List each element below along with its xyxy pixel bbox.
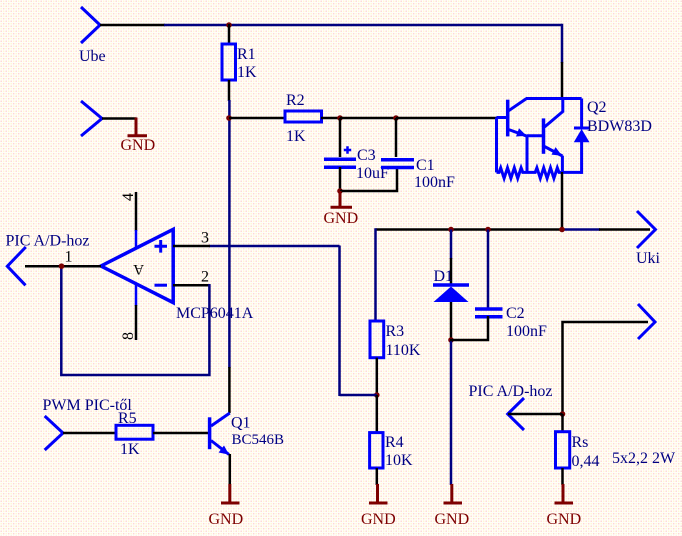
svg-text:GND: GND xyxy=(324,210,359,227)
svg-text:8: 8 xyxy=(120,332,137,340)
wire D1 upper lead black xyxy=(450,258,453,286)
svg-text:GND: GND xyxy=(121,137,156,154)
wire R4 upper lead xyxy=(376,395,379,433)
op-amp pin 3 lead xyxy=(173,245,210,248)
wire R1 upper lead xyxy=(228,24,231,45)
wire Rs upper lead xyxy=(561,414,564,432)
node junction D1 top xyxy=(448,227,454,233)
node junction Q2 emitter / rail xyxy=(559,227,565,233)
svg-text:C3: C3 xyxy=(357,147,376,164)
svg-text:D1: D1 xyxy=(434,268,454,285)
op-amp pin 4 lead xyxy=(135,192,138,231)
wire output rail right part xyxy=(562,228,600,231)
resistor R2 xyxy=(285,111,322,122)
resistor R3 xyxy=(370,321,384,358)
svg-text:1K: 1K xyxy=(286,128,306,145)
node junction at R1 top xyxy=(226,22,232,28)
svg-text:PIC A/D-hoz: PIC A/D-hoz xyxy=(6,233,90,250)
node junction C1 top xyxy=(393,115,399,121)
Q2 right side upper xyxy=(580,99,583,129)
op-amp plus input mark xyxy=(155,240,168,253)
svg-text:GND: GND xyxy=(361,511,396,528)
transistor Q1 base bar xyxy=(208,417,212,449)
wire R5 to Q1 base xyxy=(153,432,208,435)
Q2 inner transistor 2 base bar xyxy=(542,118,546,153)
wire R2 left lead xyxy=(229,117,286,120)
wire R4 lower lead xyxy=(376,468,379,485)
op-amp pin 8 lead blue part xyxy=(135,283,138,306)
svg-text:5x2,2 2W: 5x2,2 2W xyxy=(612,450,676,467)
resistor Rs xyxy=(556,432,570,468)
wire R2 right lead to C3 node xyxy=(321,117,341,120)
svg-text:BDW83D: BDW83D xyxy=(587,118,652,135)
port arrow output (top right lower) xyxy=(638,304,655,339)
node junction C2 top xyxy=(485,227,491,233)
Q2 T1 collector diagonal xyxy=(509,99,527,111)
svg-text:R2: R2 xyxy=(286,92,305,109)
svg-text:110K: 110K xyxy=(386,342,421,359)
wire Rs lower lead xyxy=(561,468,564,485)
wire output rail to Uki arrow xyxy=(599,228,650,231)
resistor R4 xyxy=(370,433,383,468)
node junction Rs top xyxy=(560,411,566,417)
wire output rail left part xyxy=(376,228,563,231)
wire feedback loop pin2 to pin1 xyxy=(61,265,209,375)
svg-text:1: 1 xyxy=(65,249,73,266)
port arrow to GND (below Ube) xyxy=(81,101,102,136)
svg-text:GND: GND xyxy=(547,511,582,528)
Q2 T1 emitter to T2 base link xyxy=(527,136,544,173)
Q2 left base stub and left side xyxy=(497,118,508,173)
capacitor C3 xyxy=(324,159,356,167)
wire D1 lower lead xyxy=(450,302,453,341)
svg-text:A: A xyxy=(133,261,144,277)
Q2 internal diode bar xyxy=(574,127,589,130)
Q2 top collector rail xyxy=(526,97,582,100)
capacitor C2 xyxy=(475,309,503,317)
wire Q2 collector lead black xyxy=(561,62,564,99)
wire Q1 emitter down xyxy=(229,454,232,485)
node junction C3 top xyxy=(337,115,343,121)
diode D1 triangle xyxy=(434,287,469,303)
wire rail corner down to R3 xyxy=(374,228,377,322)
wire Q2 emitter down to output rail xyxy=(561,172,564,231)
ground symbol below Q1 xyxy=(221,484,240,503)
wire D1 upper lead navy xyxy=(450,230,453,260)
wire arrow to GND xyxy=(102,117,137,120)
wire R3 lower lead xyxy=(376,358,379,396)
svg-text:2: 2 xyxy=(201,269,209,286)
svg-text:Rs: Rs xyxy=(572,434,589,451)
port arrow PWM xyxy=(45,416,63,450)
op-amp minus input mark xyxy=(155,284,168,287)
Q2 T2 emitter arrowhead xyxy=(552,147,563,156)
op-amp pin 2 lead xyxy=(173,284,211,287)
svg-text:BC546B: BC546B xyxy=(232,432,285,448)
svg-text:PIC A/D-hoz: PIC A/D-hoz xyxy=(469,383,553,400)
Q2 inner transistor 1 base bar xyxy=(506,100,510,137)
wire C2 upper lead xyxy=(487,230,490,311)
wire Ube rail navy segment xyxy=(164,24,562,27)
Q2 T2 collector diagonal xyxy=(545,99,563,127)
port arrow Uki xyxy=(637,211,655,248)
ground symbol below R4 xyxy=(369,484,388,503)
port arrow PIC A/D-hoz (left) xyxy=(7,247,26,285)
Q2 internal diode triangle xyxy=(574,129,590,142)
svg-text:R5: R5 xyxy=(118,410,137,427)
wire C1 upper lead xyxy=(395,118,398,157)
wire C2 lower lead to D1 node xyxy=(450,316,488,340)
C3 plus sign xyxy=(344,146,351,154)
ground symbol below Rs xyxy=(555,484,574,503)
wire C1 node to Q2 base xyxy=(396,117,497,120)
node junction feedback/pin1 xyxy=(59,263,65,269)
svg-text:4: 4 xyxy=(120,193,137,201)
node junction D1/C2 bottom xyxy=(448,337,454,343)
ground symbol near Ube xyxy=(128,118,148,136)
svg-text:0,44: 0,44 xyxy=(572,453,600,470)
svg-text:Uki: Uki xyxy=(636,250,661,267)
svg-text:100nF: 100nF xyxy=(506,323,547,340)
ground symbol below D1 xyxy=(444,484,463,503)
capacitor C1 xyxy=(381,160,414,168)
wire Q1 collector lead xyxy=(228,367,231,413)
svg-text:MCP6041A: MCP6041A xyxy=(176,305,254,322)
wire C3 node to C1 node xyxy=(340,117,396,120)
svg-text:1K: 1K xyxy=(237,64,257,81)
Q2 T2 emitter diagonal xyxy=(545,147,563,173)
svg-text:Q1: Q1 xyxy=(231,415,251,432)
svg-text:R3: R3 xyxy=(386,323,405,340)
resistor R1 xyxy=(222,44,236,80)
Q2 bottom emitter rail with resistor zigzags xyxy=(497,168,582,179)
resistor R5 xyxy=(116,425,153,439)
svg-text:GND: GND xyxy=(435,511,470,528)
node junction R1/R2 xyxy=(226,115,232,121)
Q2 T1 emitter diagonal xyxy=(509,130,528,137)
diode D1 cathode bar xyxy=(433,283,469,287)
port arrow Ube xyxy=(81,7,100,43)
svg-text:C1: C1 xyxy=(416,157,435,174)
svg-text:C2: C2 xyxy=(506,305,525,322)
svg-text:GND: GND xyxy=(209,511,244,528)
op-amp U1 triangle xyxy=(101,229,173,302)
node junction R3/R4 divider xyxy=(374,392,380,398)
node junction C3 bottom / GND xyxy=(337,188,343,194)
svg-text:3: 3 xyxy=(201,230,209,247)
wire C3 bottom to C1 bottom xyxy=(340,167,397,191)
Q2 T1 emitter arrowhead xyxy=(516,128,527,136)
wire arrow to Rs top corner xyxy=(563,322,649,415)
op-amp pin 4 lead blue part xyxy=(135,230,138,249)
wire D1 node down to GND xyxy=(450,340,453,485)
port arrow PIC A/D-hoz (bottom) xyxy=(508,398,524,430)
svg-text:R4: R4 xyxy=(385,434,404,451)
wire vertical net to pin3 crossing and Q1 xyxy=(228,100,231,368)
svg-text:R1: R1 xyxy=(237,46,256,63)
Q1 emitter arrowhead xyxy=(219,446,229,455)
wire Ube rail black segment xyxy=(100,24,165,27)
wire PWM arrow to R5 xyxy=(63,432,117,435)
op-amp pin 8 lead xyxy=(135,305,138,340)
wire C3 upper lead xyxy=(339,118,342,157)
svg-text:10K: 10K xyxy=(385,452,413,469)
wire divider to op-amp pin3 (feedback sense) xyxy=(209,246,377,397)
transistor Q2 darlington outline xyxy=(497,99,590,179)
transistor Q1 collector diagonal xyxy=(211,413,230,426)
svg-text:1K: 1K xyxy=(120,441,140,458)
op-amp pin 1 lead / output wire xyxy=(25,265,101,268)
svg-text:100nF: 100nF xyxy=(414,174,455,191)
svg-text:Ube: Ube xyxy=(79,48,106,65)
wire arrow to Rs node xyxy=(508,413,563,416)
transistor Q1 emitter diagonal xyxy=(211,441,229,455)
wire C3 lower lead xyxy=(339,167,342,192)
wire top rail corner to Q2 collector navy xyxy=(561,25,562,63)
Q2 right side lower xyxy=(580,141,583,174)
ground symbol below C3 xyxy=(331,191,353,207)
wire R1 lower lead xyxy=(228,80,231,101)
svg-text:Q2: Q2 xyxy=(587,99,607,116)
